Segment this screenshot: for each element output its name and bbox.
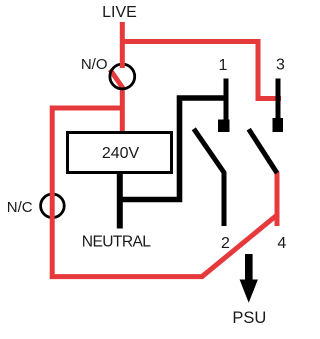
- wire from N/O contact down to 240V box: [120, 87, 125, 132]
- wire live branch right to contact 3: [120, 42, 281, 99]
- svg-text:NEUTRAL: NEUTRAL: [82, 234, 152, 251]
- arrow to PSU head: [240, 280, 258, 303]
- svg-text:1: 1: [218, 57, 227, 74]
- switch lever 3-4 (black upper part): [249, 129, 277, 173]
- terminal 3 pad: [273, 118, 284, 132]
- wire live feed down from LIVE: [120, 22, 125, 68]
- svg-text:PSU: PSU: [232, 309, 266, 327]
- load box 240V: [68, 133, 172, 173]
- wire left branch down through N/C to bottom and diagonal to 4: [52, 108, 277, 277]
- terminal 3 stub: [276, 79, 281, 122]
- wire neutral down from 240V box: [117, 172, 123, 229]
- contact circle N/C: [41, 194, 65, 218]
- switch lever 1-2: [194, 129, 224, 226]
- svg-text:N/C: N/C: [7, 199, 33, 216]
- svg-text:N/O: N/O: [81, 56, 108, 73]
- svg-text:3: 3: [276, 57, 285, 74]
- terminal 1 stub: [224, 79, 229, 122]
- contact circle N/O: [110, 64, 135, 89]
- svg-text:240V: 240V: [102, 145, 140, 162]
- wire from 240V branch to contact 1: [117, 98, 226, 200]
- wire N/O blade diagonal: [110, 70, 124, 90]
- svg-text:LIVE: LIVE: [102, 4, 137, 21]
- arrow to PSU shaft: [245, 254, 253, 280]
- svg-text:4: 4: [277, 235, 286, 252]
- terminal 1 pad: [218, 120, 230, 133]
- terminal 4 red lead: [275, 172, 280, 227]
- svg-text:2: 2: [221, 235, 230, 252]
